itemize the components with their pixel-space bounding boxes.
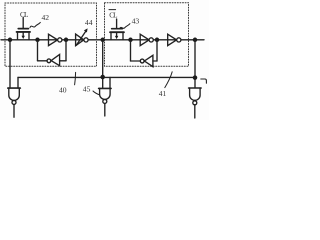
wire tap between stages down to bus and gate G2 [102, 40, 104, 89]
NAND gate G1 (left output gate) [8, 88, 20, 117]
inverter I2 (variable inverter, labeled 44) [76, 34, 89, 46]
wire tap from N0 down to gate G1 input [9, 40, 11, 88]
node N3 (latch input node, right stage) [128, 38, 133, 43]
svg-text:41: 41 [159, 89, 167, 98]
NAND gate G2 (middle output gate) [99, 88, 112, 116]
node Nmid (tap between stages) [100, 38, 105, 43]
dashed box 40 (left delay stage) [5, 3, 97, 66]
feedback inverter I3 (left latch) [38, 40, 67, 66]
leader squiggle to 43 [120, 24, 130, 29]
junction dot bus / middle tap [100, 75, 105, 80]
label 40 with leader [59, 72, 76, 94]
inverter I1 (left stage forward inverter) [49, 34, 62, 45]
junction dot bus / right tap [193, 75, 198, 80]
label 45 with leader [83, 84, 100, 94]
transistor Q2 (pass transistor, right) [110, 19, 124, 40]
wire bus left corner into G1 [17, 77, 19, 88]
wire bus (common gate input) [18, 76, 195, 78]
inverter I5 (right stage output inverter) [168, 34, 181, 45]
wire stub corner at right edge (cropped) [201, 79, 207, 83]
label 41 with leader [159, 72, 172, 98]
node N2 (after I1) [64, 38, 69, 43]
svg-text:42: 42 [42, 13, 50, 22]
feedback inverter I6 (right latch) [131, 40, 158, 67]
transistor Q1 (pass transistor, left) [17, 18, 30, 40]
svg-text:44: 44 [85, 18, 93, 27]
node N4 (after I4) [155, 38, 160, 43]
label CL-bar (inverted clock) for Q2 [109, 10, 117, 20]
svg-text:43: 43 [132, 17, 140, 26]
node N5 (output node, right) [193, 38, 198, 43]
svg-text:40: 40 [59, 86, 67, 95]
wire main signal line [1, 39, 204, 41]
svg-text:CL: CL [20, 11, 28, 19]
node N1 (latch input node, left stage) [35, 38, 40, 43]
inverter I4 (right stage forward inverter) [140, 34, 153, 45]
svg-text:45: 45 [83, 84, 91, 93]
wire bus stub into G2 second input [109, 77, 111, 88]
NAND gate G3 (right output gate) [189, 88, 202, 118]
arrow through I2 [76, 28, 87, 45]
dashed box 41 (right delay stage) [105, 3, 189, 67]
svg-text:CL: CL [109, 12, 117, 20]
wire tap from N5 down to bus and gate G3 [194, 40, 196, 88]
node N0 [8, 38, 13, 43]
leader squiggle to 42 [30, 22, 40, 27]
